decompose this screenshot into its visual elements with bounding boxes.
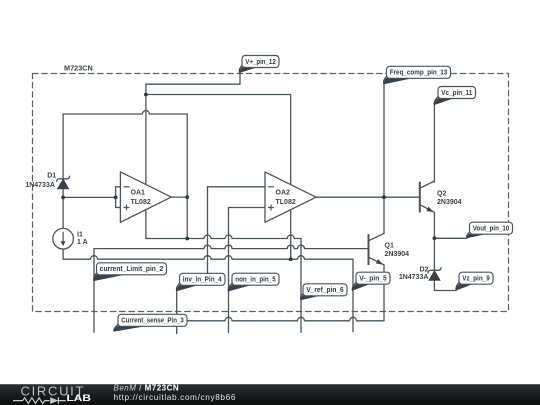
- svg-text:inv_in_Pin_4: inv_in_Pin_4: [183, 277, 222, 284]
- svg-text:1N4733A: 1N4733A: [25, 182, 55, 189]
- flag Freq_comp_pin_13: [384, 66, 451, 84]
- wire: V- column x=353 down: [352, 259, 354, 332]
- wire: inv_in lower column x=176.7: [176, 291, 178, 333]
- svg-text:M723CN: M723CN: [64, 64, 93, 73]
- svg-text:TL082: TL082: [131, 199, 151, 206]
- wire: OA2 plus input from x=228.5: [229, 207, 266, 209]
- svg-text:2N3904: 2N3904: [437, 199, 462, 206]
- wire: D1 cathode up to feedback corner: [62, 114, 64, 179]
- zener diode D2 1N4733A: [399, 267, 441, 281]
- wire: non_in column x=228.5 down: [228, 208, 230, 333]
- wire: Q2 emitter down to D2: [433, 213, 435, 271]
- wire: OA1 input bracket vertical: [115, 187, 117, 208]
- svg-text:D2: D2: [419, 267, 428, 274]
- wire: D1 anode down to I1 top: [62, 189, 64, 229]
- svg-text:OA1: OA1: [131, 189, 146, 196]
- op-amp OA1 TL082: [120, 172, 171, 222]
- svg-text:LAB: LAB: [67, 393, 92, 404]
- wire: OA2 minus input from x=207.5: [208, 186, 266, 188]
- node: OA2 output / Q1 collector / Freq comp: [382, 195, 386, 199]
- wire: D1 node to OA1 input bracket: [63, 196, 116, 198]
- svg-text:I1: I1: [77, 232, 83, 239]
- wire: V+ net anchor down from flag: [146, 73, 240, 185]
- svg-text:1 A: 1 A: [77, 239, 88, 246]
- footer: [0, 383, 540, 405]
- flag Vz_pin_9: [456, 272, 493, 290]
- flag non_in_pin_5: [228, 273, 279, 291]
- wire: OA1 plus stub: [116, 207, 121, 209]
- wire: Vout stub: [434, 237, 467, 239]
- wire: current_Limit column x=94 down: [93, 249, 95, 333]
- wire: OA1 output junction down to rail R1: [186, 197, 188, 238]
- wire: Vc column x=434.4 down to Q2 collector: [433, 105, 435, 182]
- svg-text:Q2: Q2: [437, 190, 446, 197]
- node: OA1 output junction: [185, 195, 189, 199]
- flag V-_pin_5: [352, 272, 390, 291]
- node: V+ branch junction: [144, 93, 148, 97]
- svg-text:Freq_comp_pin_13: Freq_comp_pin_13: [390, 70, 448, 77]
- zener diode D1 1N4733A: [25, 173, 69, 189]
- node: bracket tee: [114, 196, 118, 200]
- svg-text:V-_pin_5: V-_pin_5: [359, 276, 387, 283]
- node: OA2 V- on rail R3: [289, 257, 293, 261]
- transistor Q2 2N3904: [420, 181, 462, 214]
- flag V_ref_pin_6: [301, 284, 347, 300]
- wire: OA2 V- stub to rail R3: [290, 210, 292, 260]
- wire: I1 bottom to rail R3: [62, 249, 64, 259]
- svg-text:http://circuitlab.com/cny8b66: http://circuitlab.com/cny8b66: [114, 392, 237, 402]
- node: D1/I1/bracket junction: [61, 196, 65, 200]
- svg-text:V_ref_pin_6: V_ref_pin_6: [306, 287, 344, 294]
- flag Current_sense_Pin_3: [114, 314, 187, 331]
- node: Vout junction on Q2 emitter: [433, 236, 437, 240]
- node: OA1 output to rail R1: [185, 237, 189, 241]
- svg-text:Vout_pin_10: Vout_pin_10: [473, 226, 510, 233]
- op-amp OA2 TL082: [265, 172, 316, 222]
- wire: rail R1 y=238.5 with hops: [146, 235, 301, 238]
- wire: V+ branch to OA2: [146, 95, 291, 185]
- wire: current sense rail y=320.8 with hops: [187, 317, 384, 321]
- current source I1 1 A: [53, 228, 88, 249]
- svg-text:D1: D1: [47, 173, 56, 180]
- subcircuit boundary dashed box M723CN: [33, 74, 509, 312]
- flag inv_in_Pin_4: [176, 273, 225, 291]
- wire: D2 anode down and right to Vz anchor: [434, 280, 456, 290]
- svg-text:OA2: OA2: [276, 189, 291, 196]
- flag Vc_pin_11: [434, 87, 475, 106]
- svg-text:current_Limit_pin_2: current_Limit_pin_2: [100, 266, 164, 273]
- wire: OA1 V- stub down to rail R1: [145, 210, 147, 239]
- flag current_Limit_pin_2: [94, 263, 167, 281]
- wire: inv column x=207.5 down to flag box: [207, 187, 209, 273]
- wire: Q1 emitter down to current sense rail: [383, 265, 385, 321]
- svg-text:V+_pin_12: V+_pin_12: [245, 59, 276, 66]
- wire: feedback vertical x=187.2 down to OA1 output: [186, 114, 188, 197]
- svg-text:Q1: Q1: [385, 243, 394, 250]
- flag Vout_pin_10: [467, 222, 513, 238]
- svg-text:1N4733A: 1N4733A: [399, 274, 429, 281]
- svg-text:TL082: TL082: [276, 199, 296, 206]
- flag V+_pin_12: [239, 56, 279, 73]
- wire: OA1 output to junction: [171, 196, 187, 198]
- svg-text:Vc_pin_11: Vc_pin_11: [441, 90, 472, 97]
- svg-text:Vz_pin_9: Vz_pin_9: [462, 276, 490, 283]
- wire: rail R3 y=259.2 with hops: [63, 256, 353, 259]
- wire: rail R2 y=248.6 from x=94 to Q1 base: [94, 245, 368, 248]
- svg-text:2N3904: 2N3904: [385, 251, 410, 258]
- svg-text:non_in_pin_5: non_in_pin_5: [235, 277, 276, 284]
- svg-text:Current_sense_Pin_3: Current_sense_Pin_3: [121, 318, 184, 325]
- transistor Q1 2N3904: [369, 234, 410, 267]
- wire: feedback horizontal y=114 with hop over x=145.9: [63, 111, 187, 114]
- wire: OA1 minus stub: [116, 186, 121, 188]
- wire: Freq_comp/Q1 collector column x=384: [383, 84, 385, 233]
- wire: V_ref column x=301 down: [300, 239, 302, 333]
- wire: OA2 output to Q2 base: [316, 196, 419, 198]
